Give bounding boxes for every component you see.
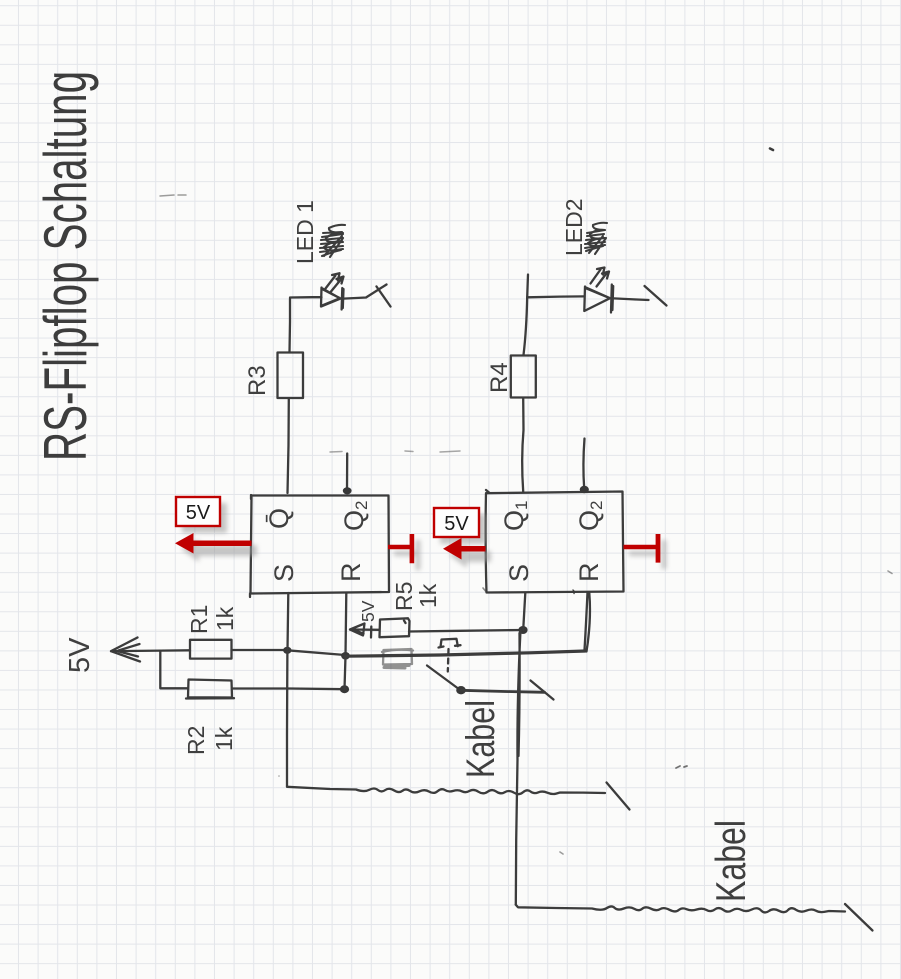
svg-text:R: R (574, 563, 604, 583)
LED2 emission arrows (591, 268, 610, 287)
junction X1 (R2 / U1-R node) (340, 685, 349, 693)
svg-text:S: S (504, 564, 534, 582)
junction S2 (R5 / U2-S / cable node) (518, 626, 527, 634)
stray pencil speck 2 (888, 571, 892, 574)
wire R1 to node S1 (232, 649, 288, 651)
wire Q1-out of U2 up to R4 (522, 398, 523, 492)
wire U1-R to X1 (345, 656, 346, 689)
flip-flop U1 (left RS flip-flop box) (250, 495, 389, 597)
svg-text:R1: R1 (186, 605, 212, 634)
wire R4 up to LED2 corner (524, 275, 529, 356)
svg-text:R5: R5 (391, 582, 417, 611)
svg-text:Kabel: Kabel (459, 700, 503, 778)
wire U2 S pin down (523, 593, 525, 630)
svg-text:Kabel: Kabel (707, 820, 754, 902)
svg-text:1k: 1k (212, 606, 238, 631)
resistor R5 (380, 618, 410, 637)
stray marks near cable2 slash (676, 766, 687, 768)
wire cable 1 (U1-S line down to zigzag) (286, 651, 289, 787)
junction dot (U1 Q2 pin) (343, 487, 352, 494)
junction dot (U2 Q2 pin) (580, 486, 589, 494)
junction dot (switch pivot) (456, 686, 466, 694)
wire cable 2 (node S2 down to bottom zigzag) (516, 631, 521, 905)
svg-text:RS-Flipflop Schaltung: RS-Flipflop Schaltung (32, 71, 99, 461)
wire LED2 cathode lead (614, 298, 649, 300)
red T-bar (U2 right annotation) (624, 534, 661, 563)
svg-text:S: S (269, 564, 299, 582)
wire cross row (X2 to U2-R) (346, 651, 586, 656)
svg-text:R4: R4 (486, 362, 513, 393)
5V red arrow (U2 output annotation) (443, 538, 486, 560)
wire node B (LED2 anode wire) (527, 295, 584, 298)
ghost resistor box R6 (faint, around cross row) (382, 649, 413, 668)
LED D2 (LED2 diode symbol) (584, 285, 613, 313)
junction S1 (R1 / U1-S node) (283, 647, 291, 654)
svg-text:1k: 1k (415, 583, 441, 608)
svg-text:LED2: LED2 (561, 198, 587, 256)
cable 1 zigzag run (287, 787, 605, 794)
red annotation shadows (181, 503, 667, 570)
resistor R1 (190, 640, 232, 659)
stray pencil dash (mid) (330, 451, 460, 452)
svg-text:5V: 5V (444, 513, 469, 535)
cable cut slash (cable 2 end) (845, 904, 873, 931)
cable cut slash (LED2 lead end) (645, 286, 667, 306)
red T-bar (U1 right annotation) (388, 534, 414, 563)
power 5V arrow (left supply, pencil) (111, 638, 190, 662)
svg-text:5V: 5V (186, 502, 211, 524)
svg-text:5V: 5V (358, 600, 378, 622)
resistor R2 (186, 680, 234, 699)
stray pencil dash (near title) (160, 195, 186, 196)
svg-text:LED 1: LED 1 (292, 200, 318, 264)
LED D1 (LED1 diode symbol) (321, 288, 344, 310)
5V red arrow (U1 output annotation) (175, 533, 252, 554)
svg-text:R3: R3 (244, 365, 271, 396)
switch lever S (to node X1 row) (427, 666, 460, 690)
wire U2 R pin down (585, 593, 590, 652)
scribble (LED2 colour note, crossed out) (585, 223, 607, 254)
wire switch row to cable end (461, 690, 545, 692)
cable cut slash (switch row end) (531, 681, 554, 700)
5V net label box (U2) (434, 508, 479, 537)
wire R5 to node S2 (409, 630, 523, 632)
svg-text:R: R (336, 563, 366, 583)
wire Q2-stub of U2 (dangling above box) (583, 439, 584, 489)
stray pencil speck 1 (770, 149, 773, 151)
wire Q2-stub of U1 (dangling above box) (346, 454, 349, 491)
handwritten texts (rotated) (32, 71, 754, 902)
wire node A (LED1 anode wire) (290, 296, 322, 299)
svg-text:Q̄: Q̄ (264, 508, 294, 529)
cable 2 corner and zigzag run (516, 905, 845, 913)
wire R2 to node X1 (232, 687, 344, 690)
LED1 emission arrows (326, 273, 344, 291)
push button K1 actuator (439, 639, 461, 648)
resistor R3 (278, 353, 304, 399)
svg-text:1k: 1k (211, 726, 237, 751)
resistor R4 (511, 356, 536, 398)
wire LED1 cathode lead (344, 285, 387, 299)
wire Q1-out of U1 up to R3 (288, 399, 289, 493)
wire branch to R2 (vertical connector) (160, 651, 188, 688)
power 5V arrow (R5 supply, pencil) (350, 624, 379, 638)
wire R3 to LED1 corner (288, 299, 291, 353)
junction X2 (U1-R / cross row node) (341, 652, 350, 660)
svg-text:5V: 5V (64, 637, 96, 673)
cable cut slash (cable 1 end) (607, 783, 630, 810)
stray marks above cable2 (279, 776, 563, 854)
wire U1 S pin down (286, 593, 289, 650)
push button K1 dashed stem (447, 649, 450, 672)
wire U1 R pin down (344, 593, 347, 656)
flip-flop U2 (right RS flip-flop box) (486, 490, 624, 594)
stray mark near switch (483, 588, 486, 591)
5V net label box (U1) (176, 497, 220, 526)
cable cut slash (LED1 lead end) (377, 287, 391, 307)
wire node S1 to node R1row (287, 650, 345, 655)
svg-text:R2: R2 (183, 726, 209, 755)
scribble (LED1 colour note, crossed out) (320, 225, 345, 257)
